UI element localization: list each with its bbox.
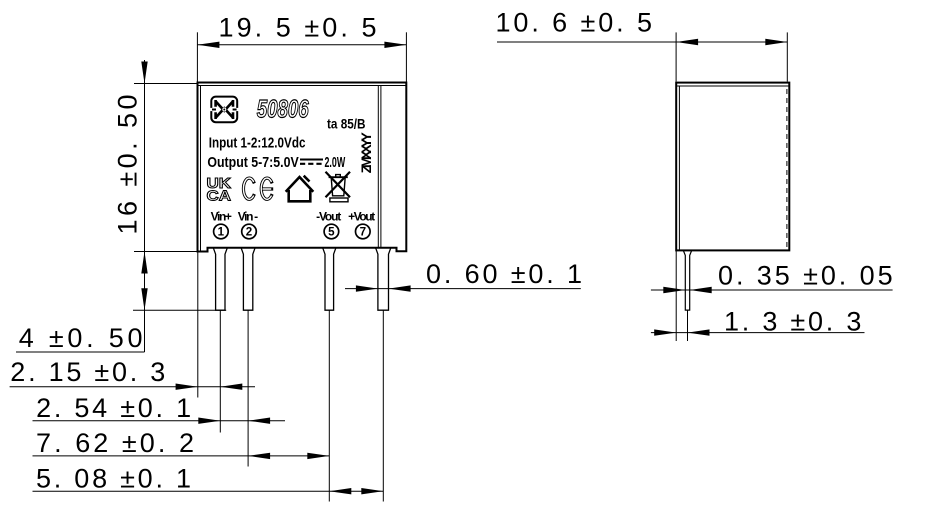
svg-text:19. 5 ±0. 5: 19. 5 ±0. 5 [219,13,377,43]
svg-text:4 ±0. 50: 4 ±0. 50 [19,323,143,353]
svg-text:5. 08 ±0. 1: 5. 08 ±0. 1 [36,464,191,494]
svg-text:2.0W: 2.0W [325,154,346,171]
svg-text:1: 1 [218,226,225,239]
svg-text:Input 1-2:12.0Vdc: Input 1-2:12.0Vdc [209,134,306,151]
svg-text:ta 85/B: ta 85/B [327,117,366,132]
svg-text:16 ±0. 50: 16 ±0. 50 [112,95,142,235]
svg-text:Output 5-7:5.0V: Output 5-7:5.0V [207,154,298,171]
svg-text:2. 54 ±0. 1: 2. 54 ±0. 1 [36,393,191,423]
svg-text:+Vout: +Vout [348,209,375,223]
svg-text:Vin -: Vin - [238,209,258,223]
svg-text:Vin+: Vin+ [211,209,232,223]
svg-text:-Vout: -Vout [316,209,341,223]
svg-text:0. 35 ±0. 05: 0. 35 ±0. 05 [718,261,893,291]
svg-text:1. 3 ±0. 3: 1. 3 ±0. 3 [724,307,861,337]
svg-text:7: 7 [360,226,366,239]
svg-text:7. 62 ±0. 2: 7. 62 ±0. 2 [36,428,194,458]
svg-text:2. 15 ±0. 3: 2. 15 ±0. 3 [10,357,165,387]
svg-text:50806: 50806 [257,96,310,124]
svg-text:10. 6 ±0. 5: 10. 6 ±0. 5 [496,8,653,38]
svg-text:0. 60 ±0. 1: 0. 60 ±0. 1 [426,259,582,289]
svg-text:CA: CA [207,188,232,205]
svg-text:5: 5 [328,226,335,239]
svg-text:ZMXXYY: ZMXXYY [358,132,374,174]
svg-text:2: 2 [246,226,252,239]
